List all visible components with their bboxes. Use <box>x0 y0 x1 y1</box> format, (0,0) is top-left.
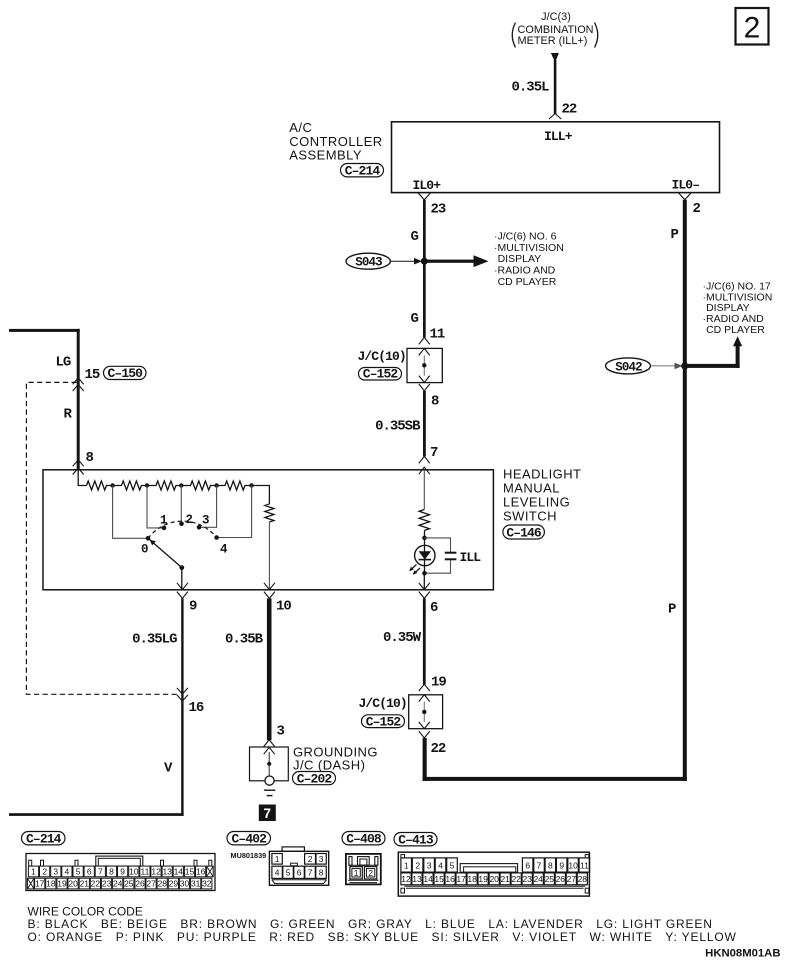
svg-text:15: 15 <box>434 874 444 884</box>
svg-text:22: 22 <box>431 741 446 757</box>
svg-text:1: 1 <box>160 514 167 528</box>
svg-text:IL0–: IL0– <box>672 178 700 193</box>
svg-text:HKN08M01AB: HKN08M01AB <box>705 948 780 960</box>
resistor R4 <box>181 481 215 490</box>
svg-text:23: 23 <box>102 879 112 889</box>
connector label C-413 <box>394 833 437 848</box>
svg-text:26: 26 <box>556 874 566 884</box>
svg-text:10: 10 <box>568 860 578 870</box>
svg-text:P: P <box>671 227 679 243</box>
svg-text:31: 31 <box>191 879 201 889</box>
svg-text:CD PLAYER: CD PLAYER <box>498 276 557 288</box>
svg-text:9: 9 <box>189 599 197 615</box>
svg-text:4: 4 <box>65 867 70 877</box>
svg-text:LEVELING: LEVELING <box>503 494 570 509</box>
pin 3 grounding J/C <box>264 724 285 755</box>
svg-text:ILL: ILL <box>460 550 482 565</box>
svg-text:G: G <box>411 229 419 245</box>
svg-text:20: 20 <box>68 879 78 889</box>
svg-text:·MULTIVISION: ·MULTIVISION <box>494 242 564 254</box>
wire tap 3 to contact 2 <box>180 486 182 524</box>
svg-text:24: 24 <box>113 879 123 889</box>
grounding J/C box <box>250 747 289 781</box>
svg-text:28: 28 <box>578 874 588 884</box>
svg-text:11: 11 <box>430 327 445 343</box>
svg-text:23: 23 <box>522 874 532 884</box>
connector C-214 pinout <box>26 854 215 891</box>
resistor R6 vertical <box>265 504 274 522</box>
svg-text:C–150: C–150 <box>108 366 144 381</box>
svg-text:1: 1 <box>354 868 359 878</box>
svg-text:13: 13 <box>162 867 172 877</box>
svg-text:24: 24 <box>533 874 543 884</box>
svg-text:26: 26 <box>135 879 145 889</box>
pin 22 A/C controller <box>549 102 577 120</box>
wire branch stub to J/C(6) NO.17 <box>685 336 742 368</box>
connector C-408 pinout <box>346 854 381 885</box>
LED ILL indicator <box>409 545 435 575</box>
pin 8 J/C(10) <box>419 376 439 410</box>
svg-text:12: 12 <box>401 874 411 884</box>
svg-text:C–202: C–202 <box>297 771 333 786</box>
svg-text:11: 11 <box>580 860 589 870</box>
svg-text:J/C(10): J/C(10) <box>359 696 407 711</box>
connector label C-402 <box>227 832 271 847</box>
wire G lower segment <box>423 261 426 337</box>
wire 0.35SB <box>423 391 426 457</box>
node tap 4 <box>214 483 218 487</box>
svg-text:METER (ILL+): METER (ILL+) <box>518 35 588 47</box>
svg-text:S043: S043 <box>355 256 382 270</box>
svg-text:17: 17 <box>456 874 466 884</box>
svg-text:32: 32 <box>202 879 212 889</box>
wire LG/R from off-page left <box>9 329 80 470</box>
svg-text:0.35W: 0.35W <box>383 630 422 646</box>
svg-text:6: 6 <box>87 867 92 877</box>
svg-text:3: 3 <box>53 867 58 877</box>
resistor R1 <box>87 481 113 490</box>
wire internal from pin 8 to resistor chain <box>78 470 86 486</box>
ground symbol <box>264 776 275 796</box>
svg-text:8: 8 <box>109 867 114 877</box>
svg-text:10: 10 <box>129 867 139 877</box>
svg-text:SWITCH: SWITCH <box>503 508 557 523</box>
arrow from S043 to node <box>390 258 422 265</box>
connector label C-214 <box>341 164 384 179</box>
switch arm <box>148 538 182 567</box>
svg-text:1: 1 <box>404 860 409 870</box>
wire tap 5 to contact 4 <box>217 486 252 538</box>
svg-text:25: 25 <box>545 874 555 884</box>
wire lamp to pin 6 <box>423 573 425 589</box>
svg-text:·J/C(6) NO. 6: ·J/C(6) NO. 6 <box>494 231 557 243</box>
svg-text:ILL+: ILL+ <box>544 129 573 144</box>
svg-text:6: 6 <box>430 600 438 616</box>
svg-text:O: ORANGE P: PINK PU: PURP: O: ORANGE P: PINK PU: PURPLE R: RED SB: … <box>28 930 737 944</box>
svg-text:19: 19 <box>431 675 446 691</box>
node tap 1 <box>110 483 114 487</box>
node junction S042 on wire P <box>681 362 688 369</box>
svg-text:29: 29 <box>169 879 179 889</box>
node tap 5 <box>249 483 253 487</box>
pin 23 A/C controller <box>418 193 446 218</box>
svg-text:C–402: C–402 <box>232 832 268 847</box>
svg-text:C–214: C–214 <box>345 164 381 179</box>
headlight manual leveling switch box <box>43 470 493 590</box>
switch contact 0 <box>146 536 151 541</box>
svg-text:7: 7 <box>264 806 272 821</box>
svg-text:17: 17 <box>35 879 45 889</box>
wire through LED <box>424 531 426 574</box>
wire pin 22 to P trunk <box>423 738 687 781</box>
wire from R6 to pin 10 <box>268 522 270 590</box>
svg-text:S042: S042 <box>615 360 642 374</box>
svg-text:16: 16 <box>196 867 206 877</box>
svg-text:14: 14 <box>423 874 433 884</box>
wire pivot to pin 9 <box>181 568 183 590</box>
switch contact 3 <box>197 525 202 530</box>
svg-text:J/C(10): J/C(10) <box>358 349 406 364</box>
resistor R2 <box>113 481 148 490</box>
pin 22 J/C(10) <box>419 722 446 757</box>
svg-text:6: 6 <box>525 860 530 870</box>
wire 0.35W pin 6 to pin 19 <box>423 598 426 684</box>
svg-text:5: 5 <box>286 868 291 878</box>
node junction S043 on wire G <box>421 258 428 265</box>
pin 9 headlight switch <box>177 583 197 615</box>
svg-text:ASSEMBLY: ASSEMBLY <box>289 147 362 162</box>
splice S043 <box>346 253 390 270</box>
svg-text:0.35SB: 0.35SB <box>375 419 421 435</box>
wire to off-page bottom left <box>9 813 184 816</box>
svg-text:2: 2 <box>308 854 313 864</box>
dashed option wire from C-150 to pin 16 <box>26 382 177 694</box>
switch contact 1 <box>162 526 167 531</box>
connector label C-408 <box>342 832 385 847</box>
svg-text:0.35L: 0.35L <box>511 80 549 96</box>
svg-text:0: 0 <box>141 543 148 557</box>
svg-text:C–413: C–413 <box>398 833 434 848</box>
pin 6 headlight switch <box>419 583 438 616</box>
connector C-413 pinout <box>398 852 589 896</box>
junction connector J/C(10) box upper <box>407 348 442 382</box>
wire chain end to vertical resistor <box>252 486 270 505</box>
wire internal from pin 7 to lamp resistor <box>423 470 425 510</box>
resistor R7 lamp dropping <box>419 510 429 531</box>
svg-text:C–152: C–152 <box>363 367 399 382</box>
svg-text:22: 22 <box>562 102 577 118</box>
grounding label <box>293 744 378 772</box>
svg-text:21: 21 <box>80 879 90 889</box>
svg-text:0.35LG: 0.35LG <box>132 632 177 648</box>
svg-text:28: 28 <box>158 879 168 889</box>
svg-text:B: BLACK BE: BEIGE BR: BRO: B: BLACK BE: BEIGE BR: BROWN G: GREEN GR… <box>28 917 713 931</box>
resistor R3 <box>147 481 181 490</box>
svg-text:2: 2 <box>368 868 373 878</box>
svg-text:J/C(3): J/C(3) <box>541 11 571 23</box>
switch contact 4 <box>214 535 219 540</box>
svg-text:18: 18 <box>467 874 477 884</box>
resistor R5 <box>217 481 252 490</box>
svg-text:5: 5 <box>450 860 455 870</box>
switch contact 2 <box>179 522 184 527</box>
inline connector pin 16 <box>177 688 204 716</box>
ground reference tag 7 <box>259 805 276 822</box>
svg-text:3: 3 <box>202 514 209 528</box>
node label J/C(6) NO.17 MULTIVISION DISPLAY RADIO AND CD PLAYER <box>703 280 773 336</box>
svg-text:C–146: C–146 <box>506 525 542 540</box>
svg-text:22: 22 <box>91 879 101 889</box>
svg-text:C–408: C–408 <box>346 832 382 847</box>
svg-text:21: 21 <box>500 874 510 884</box>
svg-text:1: 1 <box>31 867 36 877</box>
svg-text:7: 7 <box>537 860 542 870</box>
lamp parallel element <box>425 538 457 573</box>
junction connector J/C(10) box lower <box>409 695 443 729</box>
svg-text:20: 20 <box>489 874 499 884</box>
pin 10 headlight switch <box>264 583 292 615</box>
svg-text:27: 27 <box>567 874 577 884</box>
svg-text:4: 4 <box>275 868 280 878</box>
svg-text:8: 8 <box>431 394 439 410</box>
svg-text:14: 14 <box>174 867 184 877</box>
wire internal grounding <box>268 752 270 776</box>
node tap 3 <box>179 483 183 487</box>
wire tap 4 to contact 3 <box>199 486 217 528</box>
svg-text:LG: LG <box>56 355 71 371</box>
svg-text:23: 23 <box>431 202 446 218</box>
svg-text:16: 16 <box>445 874 455 884</box>
svg-text:MANUAL: MANUAL <box>503 480 560 495</box>
arrow from S042 to node <box>651 363 683 370</box>
wire P upper segment from pin 2 <box>683 200 687 781</box>
svg-text:6: 6 <box>297 868 302 878</box>
svg-text:16: 16 <box>189 700 204 716</box>
connector label C-152 lower <box>362 714 405 729</box>
connector label C-152 upper <box>359 367 402 382</box>
svg-text:18: 18 <box>46 879 56 889</box>
wire V segment <box>181 694 183 816</box>
svg-text:8: 8 <box>319 868 324 878</box>
svg-text:10: 10 <box>276 599 291 615</box>
svg-text:8: 8 <box>86 450 94 466</box>
node label J/C(6) NO.6 MULTIVISION DISPLAY RADIO AND CD PLAYER <box>494 231 564 288</box>
svg-text:HEADLIGHT: HEADLIGHT <box>503 467 581 482</box>
svg-text:3: 3 <box>427 860 432 870</box>
svg-text:P: P <box>668 602 676 618</box>
wire 0.35LG pin 9 to pin 16 <box>181 598 183 694</box>
svg-text:15: 15 <box>85 367 100 383</box>
node lamp bottom <box>422 571 427 576</box>
svg-text:9: 9 <box>120 867 125 877</box>
connector label C-146 <box>503 525 545 540</box>
svg-text:2: 2 <box>744 12 761 45</box>
svg-text:13: 13 <box>412 874 422 884</box>
svg-text:0.35B: 0.35B <box>225 632 264 648</box>
svg-text:CD PLAYER: CD PLAYER <box>706 324 765 336</box>
svg-text:3: 3 <box>319 854 324 864</box>
svg-text:19: 19 <box>57 879 67 889</box>
connector label C-202 <box>293 771 336 786</box>
connector label C-214 bottom <box>22 832 66 847</box>
svg-text:DISPLAY: DISPLAY <box>498 253 542 265</box>
dashed selector arc <box>148 521 217 538</box>
svg-text:MU801839: MU801839 <box>231 851 267 860</box>
svg-text:C–214: C–214 <box>26 832 62 847</box>
page number 2 box <box>736 8 769 45</box>
svg-text:4: 4 <box>438 860 443 870</box>
A/C controller assembly box <box>392 122 720 193</box>
svg-text:G: G <box>411 311 419 327</box>
svg-text:IL0+: IL0+ <box>413 178 442 193</box>
switch arm pivot <box>179 565 184 570</box>
wire 0.35L from J/C(3) to A/C controller pin 22 <box>551 53 559 114</box>
svg-text:1: 1 <box>275 854 280 864</box>
inline connector pin 15 C-150 <box>73 367 100 391</box>
svg-text:2: 2 <box>415 860 420 870</box>
svg-text:22: 22 <box>511 874 521 884</box>
node grounding junction <box>267 762 271 766</box>
pin 11 J/C(10) <box>419 327 445 356</box>
svg-text:J/C (DASH): J/C (DASH) <box>293 758 365 773</box>
svg-text:12: 12 <box>151 867 161 877</box>
svg-text:8: 8 <box>548 860 553 870</box>
svg-text:15: 15 <box>185 867 195 877</box>
node J/C(3) COMBINATION METER (ILL+) label <box>512 11 598 48</box>
svg-text:7: 7 <box>430 445 438 461</box>
svg-text:7: 7 <box>98 867 103 877</box>
pin 7 headlight switch <box>419 445 438 474</box>
wire tap 2 to contact 1 <box>147 486 164 528</box>
svg-text:2: 2 <box>42 867 47 877</box>
node tap 2 <box>145 483 149 487</box>
headlight manual leveling switch label <box>503 467 581 524</box>
svg-text:5: 5 <box>76 867 81 877</box>
connector C-402 pinout <box>269 847 328 885</box>
svg-text:2: 2 <box>186 513 193 527</box>
splice S042 <box>606 358 651 375</box>
wire G upper segment <box>423 200 426 261</box>
pin 19 J/C(10) <box>419 675 447 702</box>
svg-text:25: 25 <box>124 879 134 889</box>
svg-text:30: 30 <box>180 879 190 889</box>
wire 0.35B pin 10 to grounding <box>267 598 272 740</box>
svg-text:11: 11 <box>140 867 149 877</box>
wire branch arrow to J/C(6) NO.6 <box>424 255 488 267</box>
A/C controller assembly label <box>289 120 382 162</box>
svg-text:C–152: C–152 <box>366 714 402 729</box>
connector label C-150 <box>104 366 147 381</box>
svg-text:19: 19 <box>478 874 488 884</box>
svg-text:·RADIO AND: ·RADIO AND <box>494 265 556 277</box>
svg-text:2: 2 <box>693 201 701 217</box>
svg-text:7: 7 <box>308 868 313 878</box>
wire tap 1 to contact 0 <box>113 486 148 539</box>
svg-text:27: 27 <box>146 879 156 889</box>
node lamp top <box>422 536 427 541</box>
svg-text:9: 9 <box>559 860 564 870</box>
pin 8 headlight switch <box>73 450 94 475</box>
pin 2 A/C controller <box>679 193 701 217</box>
svg-text:3: 3 <box>277 724 285 740</box>
